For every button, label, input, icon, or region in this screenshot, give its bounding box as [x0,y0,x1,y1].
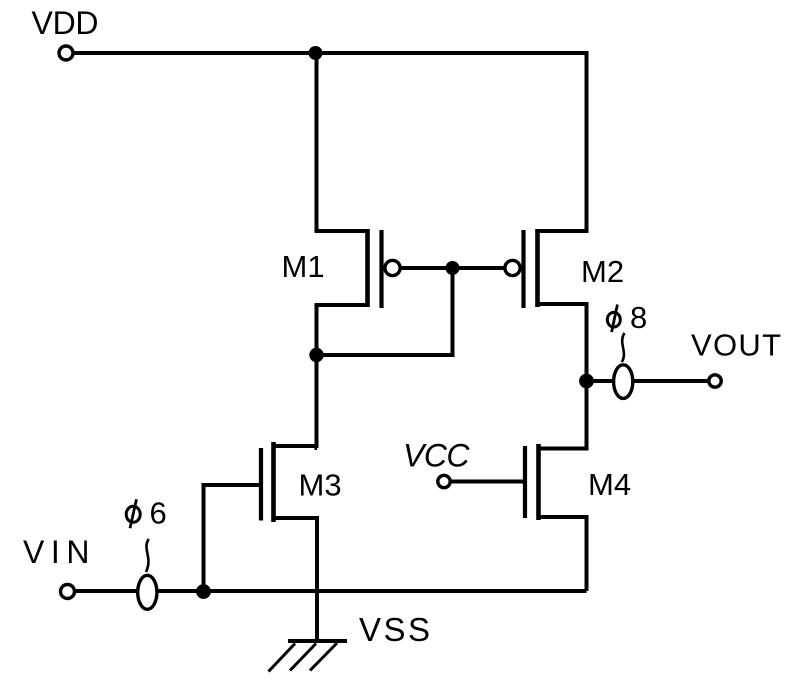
svg-text:VSS: VSS [359,611,430,648]
svg-text:VCC: VCC [403,438,470,474]
svg-text:M3: M3 [299,468,342,503]
svg-text:VIN: VIN [23,534,90,570]
svg-text:M1: M1 [282,249,325,284]
svg-text:VDD: VDD [32,5,99,41]
svg-text:VOUT: VOUT [691,327,781,362]
svg-text:6: 6 [150,495,167,530]
svg-text:M4: M4 [588,467,631,502]
svg-text:8: 8 [630,300,647,335]
svg-text:M2: M2 [581,254,624,289]
